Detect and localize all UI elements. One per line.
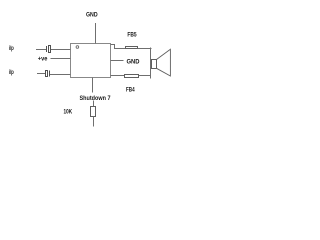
- wire below resistor: [93, 117, 95, 127]
- ferrite bead FB5: [126, 47, 138, 49]
- svg-text:FB4: FB4: [126, 87, 135, 94]
- svg-text:10K: 10K: [64, 110, 73, 116]
- svg-text:FB5: FB5: [127, 32, 136, 39]
- wire IC out2: [111, 75, 125, 77]
- wire C2 to IC: [50, 74, 71, 76]
- wire IC out1 step: [111, 45, 126, 49]
- wire C1 to IC: [51, 49, 71, 51]
- capacitor C2: [46, 71, 50, 77]
- wire shutdown pin down: [92, 78, 94, 93]
- svg-text:Shutdown 7: Shutdown 7: [80, 95, 111, 102]
- wire +ve to IC: [51, 58, 71, 60]
- pin 1 indicator circle: [76, 46, 79, 49]
- wire bottom input left segment: [37, 73, 45, 75]
- svg-text:GND: GND: [86, 12, 98, 19]
- wire top input left segment: [36, 49, 46, 51]
- wire FB5 to speaker: [138, 48, 152, 50]
- svg-text:i/p: i/p: [9, 69, 14, 76]
- op-amp U1 (audio amplifier IC body): [71, 44, 111, 78]
- speaker LS1 vertical wire: [150, 48, 152, 79]
- svg-text:GND: GND: [127, 59, 140, 66]
- speaker LS1 driver square: [152, 60, 157, 69]
- resistor R1 10K: [91, 107, 96, 117]
- speaker LS1 cone: [157, 49, 171, 76]
- ferrite bead FB4: [125, 75, 139, 78]
- svg-text:+ve: +ve: [38, 56, 48, 62]
- wire text to resistor: [93, 101, 95, 107]
- wire GND top drop: [95, 23, 97, 44]
- svg-text:i/p: i/p: [9, 45, 14, 52]
- capacitor C1: [47, 46, 51, 53]
- wire FB4 to speaker: [139, 75, 151, 77]
- wire IC GND pin right: [111, 60, 124, 62]
